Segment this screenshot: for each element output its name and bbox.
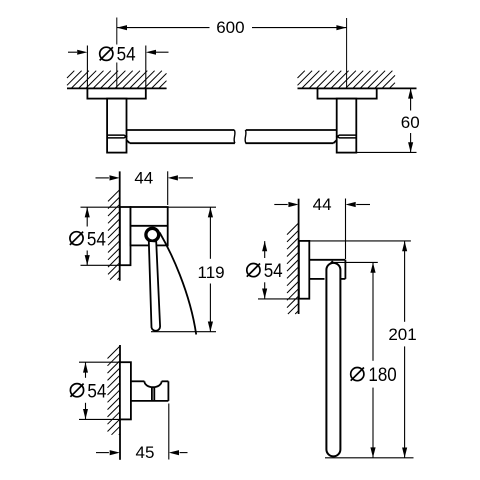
- extension line top (paper holder): [81, 206, 217, 208]
- paper holder arm: [149, 241, 160, 331]
- svg-text:600: 600: [216, 18, 244, 37]
- paper holder arm outer curve: [160, 233, 197, 335]
- towel bar left post: [107, 99, 126, 153]
- towel bar rail right segment: [245, 130, 337, 143]
- extension line top (ring): [299, 240, 411, 242]
- hook body: [131, 381, 169, 401]
- dimension D54 (paper holder): [70, 207, 120, 265]
- dimension D54 left flange: [68, 45, 169, 88]
- rail joint groove left: [107, 135, 126, 138]
- dimension 45: [96, 404, 188, 463]
- towel bar right flange: [318, 88, 377, 98]
- dimension D54 (hook): [70, 362, 120, 419]
- wall hatching (hook view): [108, 346, 121, 435]
- svg-text:54: 54: [87, 381, 106, 402]
- dimension 201: [388, 241, 416, 458]
- dimension 44 (paper holder): [96, 169, 194, 206]
- dimension D54 (ring): [247, 241, 299, 299]
- wall line right (towel bar view): [298, 87, 417, 89]
- svg-text:180: 180: [368, 365, 396, 386]
- dimension 600: [117, 18, 347, 37]
- dimension 119: [151, 207, 225, 332]
- wall line (paper holder view): [119, 171, 121, 280]
- svg-text:60: 60: [401, 113, 420, 132]
- svg-text:119: 119: [198, 263, 225, 282]
- ring wall plate: [299, 241, 309, 299]
- wall hatching left (towel bar view): [67, 71, 167, 89]
- extension line bottom (ring): [325, 457, 414, 459]
- wall hatching right (towel bar view): [298, 71, 396, 89]
- wall hatching (ring view): [287, 223, 299, 314]
- wall line left (towel bar view): [67, 87, 167, 89]
- svg-text:54: 54: [87, 229, 106, 250]
- towel ring band: [326, 263, 340, 457]
- ring holder body: [309, 260, 345, 279]
- centerline left flange: [116, 18, 118, 89]
- hook wall plate: [120, 362, 131, 419]
- centerline right flange: [346, 18, 348, 88]
- dimension D180: [332, 262, 397, 457]
- towel bar rail left segment: [126, 130, 235, 143]
- svg-text:45: 45: [136, 443, 155, 462]
- svg-text:201: 201: [388, 325, 416, 344]
- rail joint groove right: [337, 135, 356, 138]
- dimension 60: [356, 88, 419, 152]
- svg-text:54: 54: [264, 261, 283, 282]
- paper holder body: [131, 207, 168, 245]
- svg-text:44: 44: [134, 169, 153, 188]
- svg-text:44: 44: [313, 195, 332, 214]
- wall line (ring view): [298, 199, 300, 314]
- towel bar left flange: [87, 88, 145, 98]
- wall line (hook view): [119, 345, 121, 460]
- ring top tangent nub: [330, 260, 335, 263]
- paper holder roller pivot: [146, 228, 159, 241]
- dimension 44 (ring): [274, 195, 370, 259]
- towel bar right post: [337, 99, 357, 153]
- svg-text:54: 54: [117, 45, 136, 66]
- paper holder wall plate: [120, 207, 131, 265]
- wall hatching (paper holder view): [108, 190, 120, 280]
